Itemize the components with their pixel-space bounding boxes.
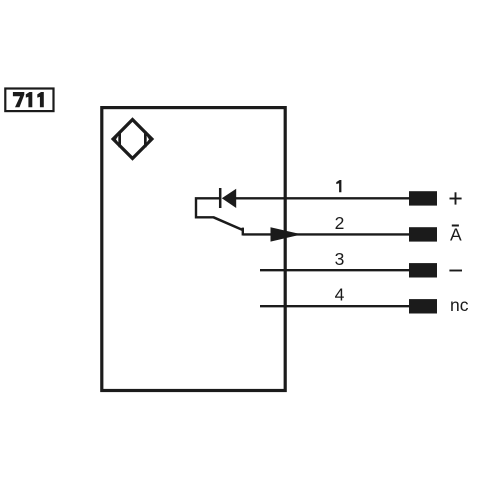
terminal 2 xyxy=(409,227,437,241)
label box 711 xyxy=(5,89,53,112)
wire loop left of diode xyxy=(196,198,220,217)
terminal 4 xyxy=(409,299,437,313)
diode D1 triangle xyxy=(222,189,236,208)
svg-text:3: 3 xyxy=(335,249,345,269)
wire 1 xyxy=(236,197,410,199)
sensor body outline xyxy=(102,108,285,391)
switch lever xyxy=(214,217,243,230)
pin number 1 xyxy=(336,180,341,192)
output arrow on wire 2 xyxy=(271,227,302,241)
svg-text:2: 2 xyxy=(335,213,345,233)
label - (minus) xyxy=(449,270,462,272)
wire 3 xyxy=(260,269,410,271)
wire 2 xyxy=(243,233,410,235)
terminal 1 xyxy=(409,191,437,205)
terminal 3 xyxy=(409,263,437,277)
svg-text:nc: nc xyxy=(450,295,469,315)
proximity sensor symbol (diamond) xyxy=(111,117,154,160)
svg-text:A: A xyxy=(450,225,462,245)
switch contact tick xyxy=(242,228,244,236)
diode D1 cathode bar xyxy=(219,188,222,208)
label A-bar output xyxy=(450,225,462,245)
wire 4 xyxy=(260,305,410,307)
label + (plus) xyxy=(450,192,462,204)
svg-text:4: 4 xyxy=(335,284,345,304)
